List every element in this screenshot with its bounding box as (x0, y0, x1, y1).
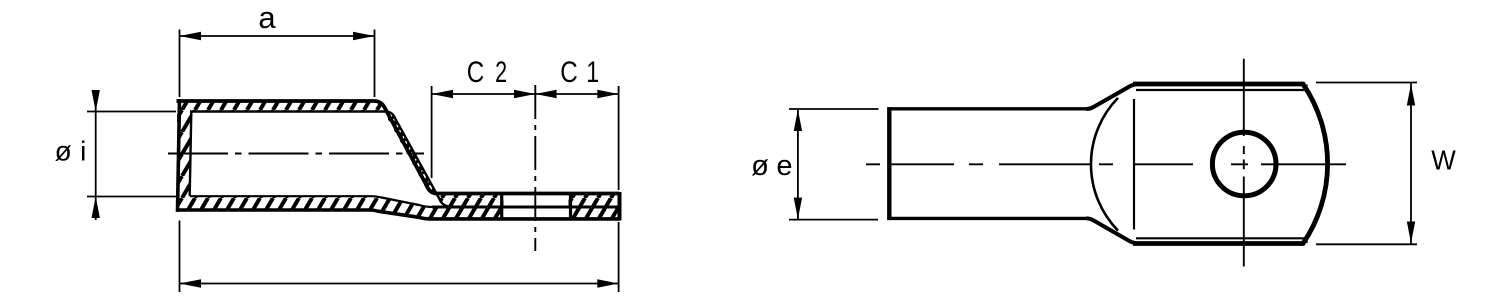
horizontal centerline of lug (dash-dot, explicit segments) (866, 163, 1346, 165)
barrel left end edge (887, 107, 891, 220)
bolt hole centerline in side view (dash-dot vertical) (534, 85, 536, 251)
dimension ø i: top arrowhead (outside, pointing down) (92, 90, 100, 112)
dimension a: left arrowhead (180, 32, 202, 40)
white inspection window in palm between C2 and C1 zones (504, 195, 569, 219)
barrel top edge (889, 107, 1088, 110)
palm outline with rounded right end (1133, 84, 1328, 244)
dimension C1: dimension line (535, 93, 618, 95)
svg-text:C: C (560, 56, 578, 89)
vertical centerline through bolt hole (dash-dot, explicit segments) (1243, 59, 1245, 267)
dimension ø i: top extension line (87, 111, 176, 113)
dimension a: left extension line (179, 30, 181, 98)
dimension ø e: dimension line (797, 109, 799, 220)
dimension ø i: bottom extension line (87, 196, 176, 198)
dimension W: dimension line (1410, 84, 1412, 244)
svg-text:a: a (258, 0, 276, 35)
palm seam line between the two flattened layers (432, 206, 618, 209)
dimension ø e: bottom arrowhead (794, 198, 802, 220)
overall length: left extension line (179, 221, 181, 293)
dimension a: dimension line (180, 35, 375, 37)
svg-text:2: 2 (495, 56, 507, 89)
top chamfer barrel-to-palm (1087, 84, 1140, 109)
hatched bottom wall band (tube bottom wall + slope + palm bottom layer) (177, 196, 619, 219)
dimension a: right extension line (374, 30, 376, 98)
svg-text:i: i (80, 136, 86, 167)
dimension ø i: dimension line (95, 90, 97, 220)
dimension W: top arrowhead (1407, 84, 1415, 106)
palm inner bottom line (edge radius line) (1136, 237, 1307, 239)
overall length: left arrowhead (180, 279, 202, 287)
bolt hole (1212, 132, 1276, 196)
hatch rungs across the sloped wall band (388, 116, 431, 186)
dimension C2: dimension line (432, 93, 536, 95)
dimension ø e: bottom extension line (789, 219, 878, 221)
svg-text:W: W (1431, 145, 1456, 176)
dimension ø e: top extension line (789, 108, 879, 110)
palm divider line at end of C2 zone (500, 195, 503, 219)
small connector at right end of inner bottom line (1305, 238, 1307, 243)
tube axis centerline (dash-dot) (168, 153, 424, 155)
svg-text:e: e (776, 150, 792, 182)
tube outer bottom edge + slope + palm bottom edge (177, 210, 620, 219)
overall length dimension line (bottom, unlabelled) (180, 283, 619, 285)
vertical edge line where chamfer meets palm (1133, 99, 1135, 230)
right extension line (lug end, C1 / overall length) (618, 86, 620, 190)
small connector at right end of inner top line (1305, 85, 1307, 91)
barrel bottom edge (889, 217, 1088, 220)
tube inner bottom line + slope (190, 196, 432, 207)
palm inner top line (edge radius line) (1136, 89, 1307, 91)
dimension W: bottom extension line (1316, 243, 1417, 245)
dimension ø i: bottom arrowhead (outside, pointing up) (92, 197, 100, 219)
hatched top wall band (tube top wall + slope + palm top layer) (177, 100, 619, 207)
palm divider line at start of C1 zone (569, 195, 572, 219)
dimension C2: right arrowhead (514, 90, 535, 98)
tube outer top edge + slope + palm top edge (177, 101, 620, 194)
dimension C2: left arrowhead (432, 90, 453, 98)
svg-text:C: C (467, 56, 485, 89)
svg-text:ø: ø (751, 150, 769, 182)
hatched left end wall of tube (177, 100, 191, 211)
overall length: right arrowhead (597, 279, 618, 287)
flattening boundary arc at left of palm (1091, 98, 1118, 231)
svg-text:ø: ø (55, 136, 72, 167)
tube left outer edge (178, 99, 180, 212)
palm end cap (right end of lug) (618, 192, 622, 221)
dimension C2: left extension line (431, 86, 433, 178)
tube left inner edge (190, 112, 192, 197)
dimension ø e: top arrowhead (794, 110, 802, 132)
dimension a: right arrowhead (353, 32, 375, 40)
bottom chamfer barrel-to-palm (1087, 218, 1140, 243)
dimension W: top extension line (1316, 82, 1417, 84)
dimension C1: left arrowhead (535, 90, 556, 98)
dimension C1: right arrowhead (597, 90, 618, 98)
dimension W: bottom arrowhead (1407, 222, 1415, 244)
tube inner top line + slope (190, 112, 451, 207)
svg-text:1: 1 (586, 56, 599, 89)
